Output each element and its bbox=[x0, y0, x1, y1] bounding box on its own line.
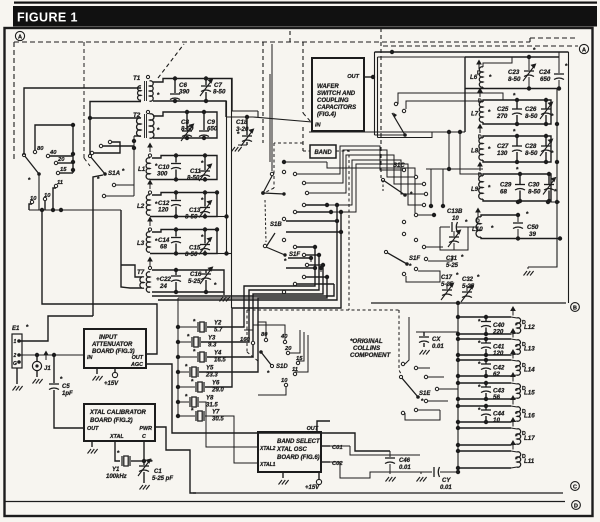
svg-text:INPUT: INPUT bbox=[99, 335, 118, 341]
capacitor C30 bbox=[548, 174, 550, 185]
cascade bus x226 bbox=[226, 101, 228, 254]
crystal Y2 bbox=[176, 325, 180, 329]
svg-text:+15V: +15V bbox=[305, 485, 320, 491]
svg-text:8-50: 8-50 bbox=[185, 251, 198, 258]
svg-text:Y6: Y6 bbox=[212, 381, 220, 387]
wires S1B contacts right bbox=[306, 204, 327, 206]
svg-text:A: A bbox=[582, 48, 586, 54]
long line to C bbox=[193, 492, 563, 494]
wire PWR bbox=[155, 427, 196, 493]
long wire S1A down to attenuator OUT bbox=[40, 208, 44, 212]
svg-text:L7: L7 bbox=[471, 111, 479, 118]
stage L12 loop bbox=[458, 316, 511, 318]
svg-text:80: 80 bbox=[37, 146, 44, 152]
svg-text:C25: C25 bbox=[497, 106, 509, 113]
wire E1 terminal 1 jog bbox=[19, 316, 93, 341]
switch S1D contact 20 bbox=[286, 351, 289, 354]
bundle wire c bbox=[309, 155, 422, 193]
switch S1A wafer1 contact 10b bbox=[30, 200, 33, 203]
svg-text:OUT: OUT bbox=[347, 74, 359, 80]
svg-text:120: 120 bbox=[493, 350, 504, 357]
band indicator box bbox=[310, 145, 336, 158]
left feeder wires to bundle bbox=[178, 297, 258, 299]
dashed mech line horizontal bbox=[247, 309, 399, 311]
connector J1 bbox=[36, 355, 38, 361]
wire AGC bbox=[146, 364, 390, 451]
switch S1D contact 11 bbox=[293, 372, 296, 375]
svg-text:10: 10 bbox=[44, 193, 51, 199]
right outer vertical to B bbox=[568, 52, 570, 303]
capacitor C13 variable bbox=[204, 193, 206, 207]
bundle wire 3 bbox=[207, 265, 323, 357]
switch S1C arm bbox=[383, 180, 405, 195]
aux switch contacts bbox=[394, 102, 397, 105]
wire contact 80 up bbox=[35, 125, 73, 150]
T7 stage loop bbox=[152, 270, 224, 292]
switch S1A wafer1 arm bbox=[24, 155, 39, 174]
capacitor C1 variable bbox=[143, 441, 145, 461]
wire L12 top to S1E contact bbox=[405, 317, 409, 364]
capacitor C27 bbox=[516, 136, 518, 146]
svg-text:C23: C23 bbox=[508, 69, 520, 76]
bundle wire 5 bbox=[152, 284, 334, 296]
switch S1A wafer2 contacts bbox=[90, 151, 93, 154]
svg-text:20: 20 bbox=[284, 346, 292, 352]
title bar FIGURE 1 bbox=[13, 6, 597, 27]
svg-text:8-50: 8-50 bbox=[185, 214, 198, 221]
inductor L16 bbox=[517, 407, 520, 421]
svg-text:BOARD (FIG.2): BOARD (FIG.2) bbox=[90, 418, 133, 424]
svg-text:AGC: AGC bbox=[130, 362, 143, 368]
capacitor C50 bbox=[517, 215, 519, 222]
wire L9 bottom to bus bbox=[551, 201, 560, 203]
svg-text:C17: C17 bbox=[441, 275, 453, 281]
switch S1C contacts bbox=[402, 168, 405, 171]
switch S1D arm bbox=[261, 352, 272, 366]
dashed mech to S1D bbox=[246, 310, 248, 352]
stage L13 loop bbox=[458, 338, 511, 340]
svg-text:C46: C46 bbox=[399, 458, 411, 464]
svg-text:80: 80 bbox=[261, 332, 268, 338]
capacitor C41 bbox=[485, 339, 487, 343]
svg-text:C27: C27 bbox=[497, 143, 509, 150]
dashed shield x263 bbox=[262, 42, 264, 143]
svg-text:COLLINS: COLLINS bbox=[353, 345, 381, 352]
svg-text:9.3: 9.3 bbox=[208, 343, 217, 349]
+15V terminal attenuator bbox=[114, 368, 116, 372]
inductor L13 bbox=[517, 340, 520, 354]
middle bus wires S1B bbox=[286, 220, 337, 222]
svg-text:120: 120 bbox=[158, 207, 169, 214]
svg-text:+C22: +C22 bbox=[156, 276, 172, 283]
capacitor C29 bbox=[519, 174, 521, 185]
svg-text:L11: L11 bbox=[524, 458, 535, 465]
svg-text:L12: L12 bbox=[524, 324, 535, 331]
svg-text:S1A: S1A bbox=[108, 170, 121, 177]
band select ground bbox=[282, 472, 284, 478]
crystal Y8 bbox=[176, 400, 180, 404]
T1 stage loop bbox=[153, 79, 232, 112]
vertical feeder x272 bbox=[271, 44, 273, 171]
L2 stage loop bbox=[150, 193, 217, 217]
bus wire y=210 bbox=[29, 209, 121, 211]
svg-text:8-50: 8-50 bbox=[187, 175, 200, 182]
svg-text:29.0: 29.0 bbox=[211, 388, 224, 394]
capacitor CY bbox=[434, 467, 440, 477]
long line to D bbox=[5, 501, 565, 503]
svg-text:10: 10 bbox=[452, 216, 459, 222]
svg-text:2: 2 bbox=[13, 353, 17, 359]
wire aux contact to L7 top bbox=[406, 101, 483, 109]
dashed mech S1A bbox=[83, 42, 85, 158]
svg-text:(FIG.4): (FIG.4) bbox=[317, 112, 336, 118]
aux switch arm near wafer bbox=[392, 113, 405, 135]
dashed left wafer shield x303 bbox=[302, 42, 304, 113]
loop around C31 bbox=[440, 227, 468, 250]
wires S1F contacts right bbox=[297, 246, 315, 248]
capacitor C44 bbox=[485, 406, 487, 410]
dashed link from BAND to S1B bbox=[274, 142, 303, 144]
svg-text:C13B: C13B bbox=[447, 209, 463, 215]
capacitor C42 bbox=[485, 360, 487, 364]
capacitor C5 bbox=[53, 355, 55, 383]
svg-text:*ORIGINAL: *ORIGINAL bbox=[350, 338, 383, 345]
switch S1A wafer1 contact 20 bbox=[54, 161, 57, 164]
band select xtal osc board box bbox=[258, 432, 321, 472]
vertical link x449 bbox=[448, 132, 450, 169]
svg-text:8-50: 8-50 bbox=[525, 113, 538, 120]
wire 10a to bus bbox=[44, 201, 46, 210]
svg-text:L9: L9 bbox=[471, 186, 479, 193]
svg-text:D: D bbox=[574, 504, 578, 510]
svg-text:S1E: S1E bbox=[419, 391, 431, 397]
svg-text:8-50: 8-50 bbox=[528, 189, 541, 196]
junction horizontals y135 bbox=[375, 134, 406, 136]
svg-text:11: 11 bbox=[57, 180, 63, 186]
svg-text:BAND SELECT: BAND SELECT bbox=[277, 439, 321, 445]
svg-text:100kHz: 100kHz bbox=[106, 474, 127, 480]
L3 stage loop bbox=[150, 230, 217, 254]
switch S1B arm bbox=[263, 176, 272, 193]
stage L15 loop bbox=[458, 382, 511, 384]
crystal Y6 bbox=[176, 385, 180, 389]
svg-text:S1B: S1B bbox=[270, 222, 282, 228]
svg-text:L1: L1 bbox=[138, 166, 146, 173]
ground right section bbox=[528, 239, 557, 267]
wire top to C24 bbox=[375, 51, 569, 53]
wire T2 primary bottom bus bbox=[134, 135, 141, 137]
svg-text:24: 24 bbox=[159, 283, 167, 290]
right stage left links bbox=[430, 92, 465, 94]
section marker A right bbox=[579, 44, 588, 53]
svg-text:L8: L8 bbox=[471, 148, 479, 155]
capacitor C8 variable bbox=[186, 112, 188, 130]
svg-text:COUPLING: COUPLING bbox=[317, 98, 349, 104]
wires S1F-right bbox=[426, 246, 443, 248]
inductor L11 bbox=[517, 452, 521, 467]
svg-text:C30: C30 bbox=[528, 182, 540, 189]
svg-text:BOARD (FIG.6): BOARD (FIG.6) bbox=[277, 455, 320, 461]
stage L17 loop bbox=[458, 427, 511, 429]
J1 ground bbox=[36, 371, 38, 377]
bundle wire e bbox=[331, 164, 422, 212]
svg-text:650: 650 bbox=[540, 76, 551, 83]
capacitor C26 bbox=[545, 100, 547, 109]
long wire y93 bbox=[430, 93, 503, 100]
svg-text:SWITCH AND: SWITCH AND bbox=[317, 91, 356, 97]
wire wafer2 contacts to bus bbox=[103, 145, 134, 147]
svg-text:L3: L3 bbox=[137, 240, 145, 247]
E1 ground bbox=[16, 368, 18, 384]
svg-text:OUT: OUT bbox=[132, 355, 144, 361]
terminal strip E1 bbox=[12, 334, 22, 368]
svg-text:C50: C50 bbox=[527, 224, 539, 231]
svg-text:0.01: 0.01 bbox=[399, 465, 411, 471]
section marker A left bbox=[15, 31, 24, 40]
input attenuator board box bbox=[84, 329, 146, 368]
svg-text:16.5: 16.5 bbox=[214, 358, 226, 364]
svg-text:5.7: 5.7 bbox=[214, 328, 223, 334]
svg-text:XTAL2: XTAL2 bbox=[259, 446, 276, 452]
L6 outer loop bbox=[465, 56, 559, 58]
svg-text:IN: IN bbox=[87, 355, 92, 361]
svg-text:68: 68 bbox=[160, 244, 167, 251]
S1D contact wires bbox=[244, 330, 253, 341]
svg-text:30.5: 30.5 bbox=[212, 417, 224, 423]
svg-text:Y7: Y7 bbox=[212, 410, 220, 416]
svg-text:IN: IN bbox=[315, 123, 322, 129]
svg-text:T7: T7 bbox=[137, 269, 145, 276]
section marker D bottom right bbox=[572, 501, 581, 510]
inductor L15 bbox=[517, 384, 520, 398]
svg-text:T1: T1 bbox=[133, 75, 141, 82]
svg-text:C31: C31 bbox=[446, 256, 458, 262]
svg-text:C1: C1 bbox=[154, 469, 162, 475]
long wire y132 bbox=[309, 131, 465, 133]
wire to XTAL1 bbox=[205, 416, 258, 463]
wire T1 primary top bbox=[24, 88, 141, 155]
title bar top rule bbox=[14, 2, 597, 4]
bundle dots bbox=[429, 204, 433, 208]
switch S1A wafer1 contact 80 bbox=[33, 150, 36, 153]
svg-text:62: 62 bbox=[493, 371, 500, 378]
shield dashed top line bbox=[14, 41, 530, 43]
L7 stage loop bbox=[483, 100, 551, 124]
switch S1F-right contacts bbox=[402, 232, 405, 235]
wire stage bus to IN corner bbox=[232, 110, 258, 112]
L9 stage loop bbox=[483, 174, 551, 201]
svg-text:A: A bbox=[18, 35, 22, 41]
wire band C02 to bottom bbox=[330, 462, 390, 478]
ground T7 stage bbox=[223, 292, 225, 295]
svg-text:C26: C26 bbox=[525, 106, 537, 113]
bundle junction to L9 bbox=[426, 168, 483, 170]
wire y132 link bbox=[408, 132, 432, 138]
wire arm2 tip down to E1 bbox=[93, 175, 103, 316]
svg-text:+15V: +15V bbox=[104, 381, 119, 387]
capacitor C40 bbox=[485, 317, 487, 322]
wire to XTAL2 bbox=[199, 402, 258, 447]
svg-text:40: 40 bbox=[49, 150, 57, 156]
pin C01 bbox=[321, 445, 330, 447]
cascade bus x231 bbox=[231, 79, 233, 309]
line to B bbox=[371, 302, 566, 304]
+15V terminal band select bbox=[318, 472, 320, 479]
bottom wire with CY bbox=[390, 471, 432, 473]
switch S1E arm bbox=[401, 377, 418, 397]
crystal bus vertical bbox=[177, 298, 179, 416]
svg-text:XTAL CALIBRATOR: XTAL CALIBRATOR bbox=[89, 410, 147, 416]
wire dot284 junction bbox=[282, 160, 286, 164]
wire contact 40 to bus bbox=[50, 155, 73, 157]
L1 stage loop bbox=[150, 156, 217, 180]
switch S1A wafer1 contact 11 bbox=[54, 184, 57, 187]
shield dashed left line bbox=[13, 42, 15, 162]
svg-text:C32: C32 bbox=[462, 277, 474, 283]
svg-text:Y5: Y5 bbox=[206, 366, 214, 372]
T2 stage loop bbox=[153, 112, 217, 138]
svg-text:8-50: 8-50 bbox=[181, 126, 194, 133]
svg-text:650: 650 bbox=[207, 126, 218, 133]
dashed link S1B-S1F bbox=[265, 200, 266, 242]
capacitor C12 bbox=[175, 193, 177, 200]
wafer switch and coupling capacitors box U-fig4 bbox=[312, 58, 364, 131]
svg-text:E1: E1 bbox=[12, 326, 20, 332]
svg-text:L14: L14 bbox=[524, 367, 535, 374]
svg-text:10: 10 bbox=[30, 196, 37, 202]
junction verticals right of wafer box bbox=[374, 52, 376, 135]
L8 stage loop bbox=[483, 136, 551, 162]
stage L16 loop bbox=[458, 405, 511, 407]
switch S1E contacts bbox=[401, 362, 404, 365]
bundle wire a bbox=[297, 146, 402, 174]
bundle wire 4 bbox=[199, 277, 327, 372]
svg-text:C: C bbox=[573, 485, 577, 491]
T7 primary wrap wire bbox=[121, 265, 142, 277]
wire arm1 down to bus bbox=[38, 174, 40, 210]
L10 loop bbox=[481, 215, 518, 217]
svg-text:FIGURE 1: FIGURE 1 bbox=[17, 11, 78, 25]
svg-text:OUT: OUT bbox=[87, 426, 99, 432]
svg-text:WAFER: WAFER bbox=[317, 84, 339, 90]
svg-text:BAND: BAND bbox=[314, 150, 332, 156]
switch S1D contact 40 bbox=[283, 340, 286, 343]
switch S1F-right arm bbox=[386, 252, 407, 264]
svg-text:B: B bbox=[573, 306, 577, 312]
crystal bus left bbox=[177, 302, 179, 416]
svg-text:L13: L13 bbox=[524, 346, 535, 353]
svg-text:L17: L17 bbox=[524, 435, 535, 442]
dashed mech to S1E bbox=[399, 310, 402, 376]
svg-text:Y8: Y8 bbox=[206, 396, 214, 402]
svg-text:CX: CX bbox=[432, 337, 441, 343]
wire OUT band select bbox=[317, 421, 330, 432]
bundle wire d bbox=[327, 160, 424, 205]
wire band C01 to L11 top bbox=[350, 446, 420, 455]
svg-text:1: 1 bbox=[14, 339, 17, 345]
svg-text:0.01: 0.01 bbox=[440, 485, 452, 491]
svg-text:8-50: 8-50 bbox=[525, 150, 538, 157]
dashed link band left bbox=[303, 150, 310, 152]
svg-text:Y4: Y4 bbox=[214, 351, 222, 357]
svg-text:68: 68 bbox=[500, 189, 507, 196]
capacitor C46 bbox=[389, 451, 391, 457]
bundle wire 1 bbox=[207, 247, 315, 327]
switch S1D contact 80 bbox=[264, 338, 267, 341]
svg-text:C5: C5 bbox=[62, 384, 70, 390]
svg-text:Y1: Y1 bbox=[112, 467, 120, 473]
wire 10b to bus bbox=[29, 204, 32, 210]
shield dashed second top line bbox=[383, 45, 578, 47]
svg-text:Y2: Y2 bbox=[214, 321, 222, 327]
svg-text:10: 10 bbox=[493, 417, 500, 424]
wire y57 to L6 loop bbox=[378, 56, 466, 58]
capacitor CX bbox=[416, 331, 424, 333]
svg-text:5-25 pF: 5-25 pF bbox=[152, 476, 173, 482]
wire C18 to IN diagonal bbox=[226, 116, 253, 118]
switch S1A wafer2 arm bbox=[90, 156, 105, 174]
wire wafer OUT bbox=[364, 76, 375, 78]
crystal Y3 bbox=[176, 340, 180, 344]
switch S1D contact 160 bbox=[251, 341, 254, 344]
svg-text:10: 10 bbox=[281, 378, 288, 384]
capacitor C11 variable bbox=[204, 156, 206, 171]
capacitor C9 bbox=[203, 112, 205, 130]
bundle wire 7 bbox=[205, 212, 341, 387]
svg-text:1pF: 1pF bbox=[62, 391, 73, 397]
svg-text:56: 56 bbox=[493, 394, 500, 401]
T7 primary winding bbox=[140, 277, 144, 288]
crystal Y5 bbox=[176, 370, 180, 374]
xtal cal ground bbox=[91, 441, 93, 447]
svg-text:CY: CY bbox=[442, 478, 451, 484]
capacitor C31 variable bbox=[453, 231, 455, 236]
svg-text:5-25: 5-25 bbox=[446, 263, 459, 269]
svg-text:XTAL1: XTAL1 bbox=[259, 462, 276, 468]
svg-text:CAPACITORS: CAPACITORS bbox=[317, 105, 356, 111]
svg-text:C: C bbox=[142, 434, 146, 440]
switch S1F-left arm bbox=[266, 233, 275, 247]
capacitor C43 bbox=[485, 383, 487, 387]
svg-text:S1F: S1F bbox=[289, 252, 300, 258]
svg-text:40: 40 bbox=[280, 334, 288, 340]
svg-text:PWR: PWR bbox=[139, 426, 152, 432]
svg-text:C18: C18 bbox=[236, 119, 248, 126]
svg-text:8-50: 8-50 bbox=[213, 89, 226, 96]
capacitor C16 variable bbox=[205, 270, 207, 273]
wires S1C contacts bbox=[418, 214, 432, 216]
capacitor C24 bbox=[558, 57, 560, 73]
svg-text:COMPONENT: COMPONENT bbox=[350, 352, 391, 359]
svg-text:L16: L16 bbox=[524, 413, 535, 420]
stage L14 loop bbox=[458, 359, 511, 361]
svg-text:31.5: 31.5 bbox=[206, 403, 218, 409]
capacitor C25 bbox=[516, 100, 518, 109]
xtal calibrator board box bbox=[84, 404, 155, 441]
svg-text:39: 39 bbox=[529, 231, 536, 238]
svg-text:S1F: S1F bbox=[409, 256, 420, 262]
svg-text:23.3: 23.3 bbox=[205, 373, 218, 379]
inductor L12 bbox=[517, 318, 521, 333]
capacitor C14 bbox=[175, 230, 177, 237]
wire E1-2 to IN bbox=[19, 354, 84, 356]
crystal Y4 bbox=[176, 355, 180, 359]
stage L11 loop bbox=[458, 450, 511, 452]
inductor L14 bbox=[517, 361, 520, 375]
bundle wire 2 bbox=[201, 255, 319, 342]
switch S1D contact 15 bbox=[296, 361, 299, 364]
link y132 to L9 top bbox=[460, 132, 482, 174]
